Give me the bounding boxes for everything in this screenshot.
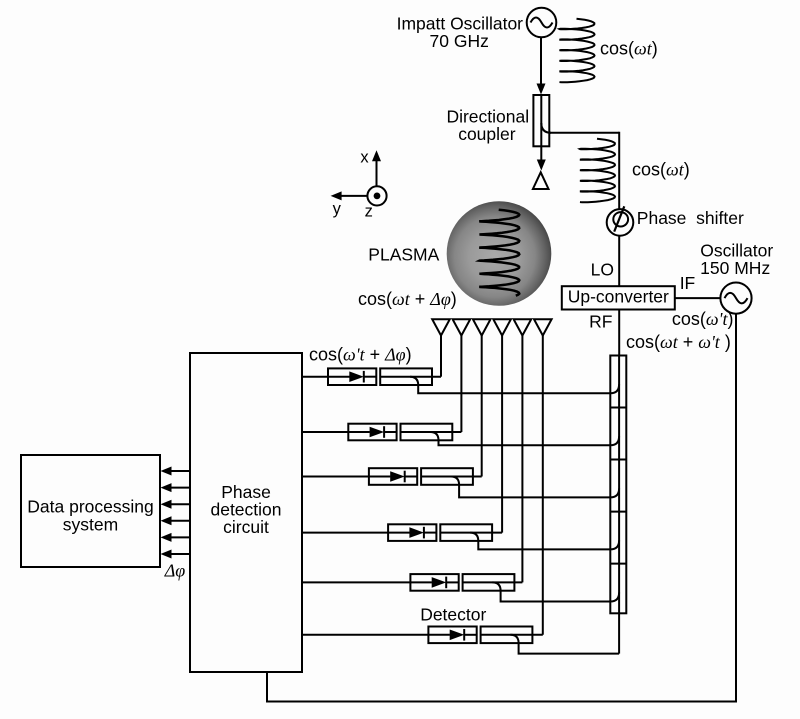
svg-text:cos(ωt + ω't ): cos(ωt + ω't ) — [626, 332, 731, 352]
svg-text:Δφ: Δφ — [164, 561, 186, 581]
svg-text:PLASMA: PLASMA — [368, 244, 439, 264]
svg-text:system: system — [63, 515, 118, 535]
svg-text:circuit: circuit — [223, 517, 269, 537]
svg-text:Detector: Detector — [420, 604, 486, 624]
svg-text:Phase shifter: Phase shifter — [637, 208, 744, 228]
svg-text:z: z — [365, 202, 373, 220]
svg-text:RF: RF — [589, 312, 612, 332]
svg-text:LO: LO — [591, 260, 614, 280]
svg-text:IF: IF — [680, 273, 696, 293]
svg-text:cos(ωt): cos(ωt) — [632, 160, 690, 180]
svg-text:cos(ω't + Δφ): cos(ω't + Δφ) — [309, 344, 412, 364]
svg-text:y: y — [333, 200, 342, 218]
svg-text:70 GHz: 70 GHz — [430, 31, 489, 51]
svg-text:Up-converter: Up-converter — [568, 286, 669, 306]
svg-text:cos(ω't): cos(ω't) — [672, 309, 734, 329]
svg-text:cos(ωt): cos(ωt) — [600, 39, 658, 59]
svg-text:coupler: coupler — [458, 124, 516, 144]
svg-text:150 MHz: 150 MHz — [700, 258, 770, 278]
svg-text:Data processing: Data processing — [27, 497, 153, 517]
svg-text:cos(ωt + Δφ): cos(ωt + Δφ) — [358, 289, 457, 309]
svg-text:x: x — [360, 149, 369, 167]
